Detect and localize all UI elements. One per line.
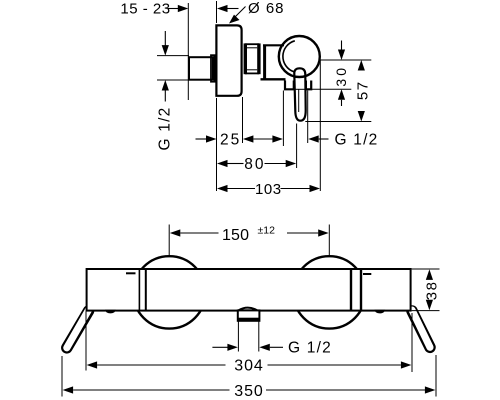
svg-text:15 - 23: 15 - 23: [120, 1, 170, 18]
svg-text:G 1/2: G 1/2: [335, 132, 379, 149]
svg-text:±12: ±12: [258, 225, 276, 237]
dim 304 arrow right: [268, 361, 412, 368]
knurled nut: [244, 43, 261, 74]
svg-text:350: 350: [234, 383, 263, 400]
outlet stub: [237, 308, 259, 321]
dim arrow 15-23: [168, 5, 188, 12]
svg-text:G 1/2: G 1/2: [156, 107, 173, 151]
line B lever base: [312, 88, 352, 90]
circle right extension line: [319, 60, 321, 191]
svg-text:80: 80: [244, 156, 265, 173]
dim 25 arrow right: [196, 135, 217, 142]
svg-text:304: 304: [234, 358, 263, 375]
line C lever end: [305, 121, 371, 123]
304 right extension line: [411, 313, 413, 372]
svg-text:25: 25: [220, 132, 241, 149]
left check-valve bump: [105, 310, 116, 314]
svg-text:150: 150: [222, 227, 249, 244]
escutcheon face extension line upper: [216, 1, 218, 23]
dim 103 arrow left: [217, 185, 255, 192]
outlet right extension line: [258, 322, 260, 352]
dim 304 arrow left: [87, 361, 226, 368]
nipple bottom extension line: [157, 79, 189, 81]
mixer bar body: [87, 269, 411, 311]
right tick mark: [363, 273, 371, 275]
supply nipple: [189, 57, 213, 79]
left tick mark: [126, 272, 136, 274]
dim 30 arrow down: [338, 41, 345, 61]
dim 80 arrow left: [217, 160, 244, 167]
dim 38 arrow up: [426, 269, 433, 280]
dim 350 arrow right: [266, 386, 435, 393]
lever cup right: [306, 81, 311, 90]
dim 103 arrow right: [281, 185, 321, 192]
lever handle: [294, 68, 305, 120]
nipple top extension line: [157, 55, 189, 57]
38 bottom extension line: [412, 310, 440, 312]
axis line A: [319, 59, 371, 61]
dim 38 arrow down: [426, 300, 433, 311]
double arrow escutcheon face to cup: [243, 135, 283, 142]
dim 80 arrow right: [265, 160, 297, 167]
dim 350 arrow left: [63, 386, 230, 393]
svg-text:103: 103: [255, 181, 282, 198]
right s-union: [412, 310, 430, 347]
dome inner arc: [283, 41, 295, 72]
150 right extension line: [328, 225, 330, 256]
leader arrow to escutcheon: [229, 7, 246, 24]
svg-text:30: 30: [333, 65, 349, 87]
350 right extension line: [435, 355, 437, 397]
dim 30 arrow up: [338, 89, 345, 106]
outlet left extension line: [237, 322, 239, 352]
dim 150 arrow left: [170, 229, 219, 236]
lever inner line: [298, 89, 300, 112]
dim arrow at escutcheon face: [217, 5, 239, 12]
left s-union: [67, 310, 89, 348]
outlet G1/2 arrow left: [259, 344, 283, 351]
svg-text:57: 57: [354, 80, 371, 100]
cup left extension line: [282, 91, 284, 147]
right band line a: [350, 269, 352, 311]
left escutcheon circle: [133, 256, 205, 328]
wall extension line: [187, 3, 189, 100]
cup right extension line: [307, 91, 309, 144]
150 left extension line: [168, 225, 170, 257]
left cap joint line b: [145, 269, 147, 311]
dim 57 arrow up: [358, 60, 365, 71]
svg-text:G 1/2: G 1/2: [288, 340, 332, 357]
lever cup left: [285, 81, 294, 90]
right band line b: [360, 269, 362, 311]
outlet G1/2 arrow right: [212, 344, 238, 351]
lever tip extension line: [296, 124, 298, 169]
G1/2 right arrow left: [308, 135, 328, 142]
nipple collar: [211, 55, 215, 81]
valve body: [261, 45, 286, 79]
dim 57 arrow down: [358, 111, 365, 122]
escutcheon front face extension line: [242, 97, 244, 143]
escutcheon face extension line lower: [216, 98, 218, 191]
svg-text:Ø 68: Ø 68: [248, 0, 285, 17]
dim 150 arrow right: [287, 229, 329, 236]
350 left extension line: [61, 356, 63, 397]
right check-valve bump: [374, 310, 385, 314]
304 left extension line: [85, 312, 87, 371]
left cap joint line a: [138, 269, 140, 311]
handle dome circle: [279, 36, 320, 77]
right escutcheon circle: [293, 256, 365, 328]
G1/2 left arrow down: [162, 31, 169, 56]
escutcheon (side): [216, 25, 241, 95]
G1/2 left arrow up: [162, 80, 169, 102]
38 top extension line: [412, 268, 440, 270]
svg-text:38: 38: [423, 281, 440, 301]
